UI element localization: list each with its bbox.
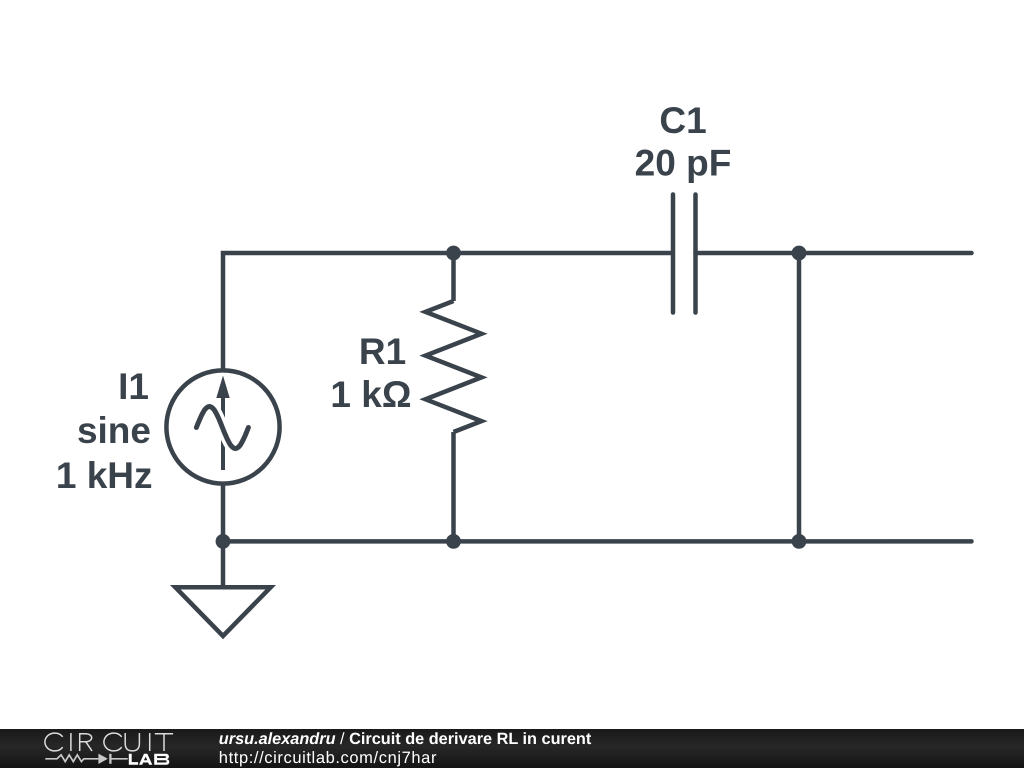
- logo diode output lead: [110, 758, 127, 760]
- wire: bottom rail: [223, 539, 972, 544]
- wire: ground lead: [221, 541, 226, 587]
- logo diode: [98, 754, 107, 764]
- wire: top rail right segment (C1 right plate to open end): [696, 251, 972, 256]
- resistor R1 zigzag: [426, 301, 482, 432]
- logo letter U: [125, 733, 139, 751]
- logo diode bar: [109, 754, 111, 764]
- current source I1 arrow head: [216, 376, 229, 399]
- logo letter B of LAB: [154, 754, 169, 765]
- wire: R1 top lead: [451, 253, 456, 301]
- svg-text:C1: C1: [659, 100, 706, 141]
- current source I1 sine wave: [196, 407, 248, 449]
- junction node: right branch top: [792, 246, 807, 261]
- wire: top rail left segment (source top lead corner to C1 left plate): [223, 253, 673, 370]
- svg-text:20 pF: 20 pF: [635, 143, 732, 184]
- svg-text:1 kHz: 1 kHz: [56, 455, 153, 496]
- svg-text:sine: sine: [77, 410, 151, 451]
- current source I1 (circle): [166, 370, 279, 483]
- footer watermark bar: [0, 729, 1024, 768]
- svg-text:I1: I1: [118, 366, 149, 407]
- logo letter R: [80, 734, 92, 751]
- logo letter I: [70, 733, 72, 751]
- junction node: right branch bottom: [792, 534, 807, 549]
- capacitor C1 left plate: [671, 195, 676, 313]
- ground symbol: [175, 587, 270, 636]
- logo letter L of LAB: [129, 754, 138, 765]
- capacitor C1 right plate: [693, 195, 698, 313]
- junction node: R1 top: [446, 246, 461, 261]
- wire: R1 bottom lead: [451, 432, 456, 541]
- wire: source bottom lead: [221, 484, 226, 541]
- wire: right vertical branch: [797, 253, 802, 541]
- logo letter C: [104, 733, 122, 751]
- logo letter A of LAB: [139, 754, 152, 765]
- current source I1 arrow shaft: [221, 396, 225, 470]
- junction node: R1 bottom: [446, 534, 461, 549]
- junction node: source/ground on bottom rail: [216, 534, 231, 549]
- logo letter I: [149, 733, 151, 751]
- logo letter C: [45, 733, 63, 751]
- current source I1 sine halo: [196, 407, 248, 449]
- svg-text:R1: R1: [359, 331, 406, 372]
- svg-text:1 kΩ: 1 kΩ: [330, 374, 411, 415]
- logo letter T: [155, 734, 173, 751]
- logo resistor zigzag and input lead: [45, 755, 98, 762]
